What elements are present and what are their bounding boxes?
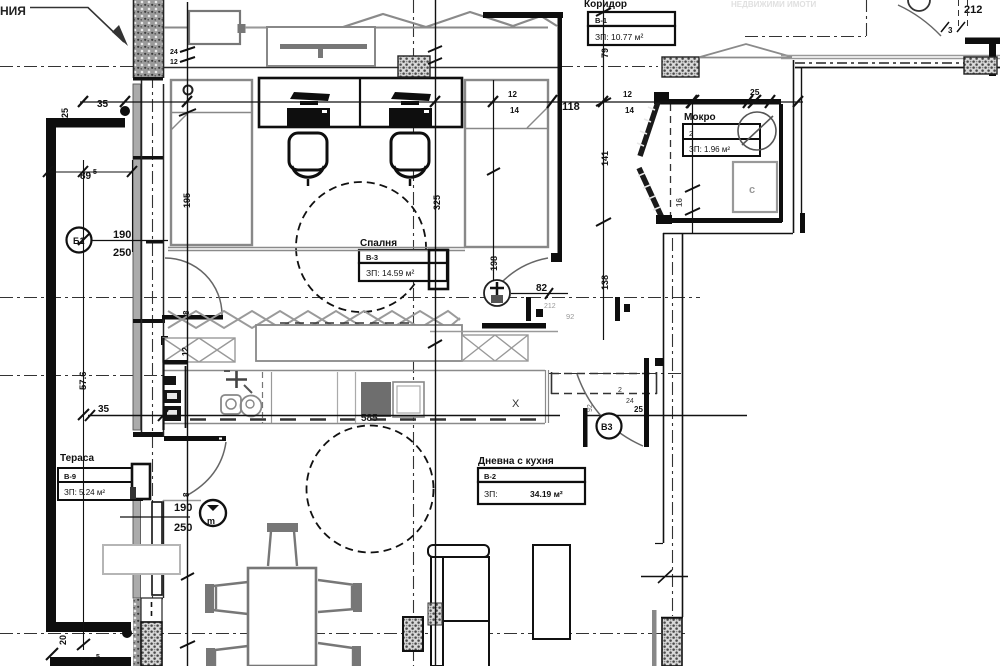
mokro corner blob xyxy=(654,92,669,104)
svg-text:ЗП:: ЗП: xyxy=(484,489,498,499)
chair 1 xyxy=(289,133,327,170)
mokro roof xyxy=(700,44,792,58)
wall cabinets X right xyxy=(462,335,528,361)
terrace parapet thick wall xyxy=(46,118,125,128)
svg-text:14: 14 xyxy=(625,106,634,115)
chair left mid xyxy=(205,584,214,613)
chair 2 xyxy=(391,133,429,170)
kitchen vertical wall edge xyxy=(162,338,164,430)
keyboard 1 xyxy=(287,108,330,126)
insulation zigzag top wall xyxy=(340,12,557,28)
kitchen insulation zigzag band xyxy=(168,311,460,328)
coffee table xyxy=(533,545,570,639)
svg-text:Мокро: Мокро xyxy=(684,112,716,123)
sofa seat 1 xyxy=(443,557,489,621)
kitchen counter xyxy=(163,370,545,372)
door posts hall xyxy=(526,297,531,321)
chair left bottom xyxy=(206,648,215,666)
wall cabinets X left xyxy=(163,338,235,362)
entrance door arc xyxy=(898,5,941,36)
vertical dim x=603 xyxy=(603,0,605,340)
column hatched bottom-left xyxy=(141,622,162,666)
axis line C horizontal y=375 xyxy=(0,374,683,376)
living top wall grey xyxy=(430,331,558,333)
bedroom top wall outer face xyxy=(164,27,380,29)
ticks and small dims on x187 xyxy=(179,47,196,648)
counter front line + dim 35 xyxy=(88,415,747,417)
svg-text:X: X xyxy=(512,398,520,410)
mokro bottom wall xyxy=(656,215,672,224)
svg-text:25: 25 xyxy=(634,405,643,414)
svg-text:12: 12 xyxy=(170,59,178,66)
entry door B3 arc xyxy=(577,374,643,446)
svg-text:НЕДВИЖИМИ ИМОТИ: НЕДВИЖИМИ ИМОТИ xyxy=(731,0,816,9)
top wall black segment xyxy=(483,12,563,18)
svg-text:В-2: В-2 xyxy=(484,472,496,481)
vertical dim line x=132 xyxy=(132,160,134,252)
axis line B horizontal y=297 xyxy=(0,297,700,299)
stove dark grey xyxy=(361,382,391,417)
entry door B3 post xyxy=(644,358,649,447)
column hatched mokro left xyxy=(662,57,699,77)
bedroom-corridor wall top xyxy=(558,17,563,62)
door frame rect hallway xyxy=(429,250,448,289)
svg-text:35: 35 xyxy=(97,99,109,110)
dim line y=240 xyxy=(92,240,168,242)
dining table xyxy=(248,568,316,666)
chair top xyxy=(267,523,298,532)
bedroom bottom wall xyxy=(168,248,465,251)
entry wall inner black xyxy=(795,67,1000,69)
bedroom top wall inner face xyxy=(163,67,560,69)
svg-text:2: 2 xyxy=(618,387,622,394)
svg-text:92: 92 xyxy=(587,404,594,412)
dim ticks on mokro top wall xyxy=(686,95,761,108)
kitchen tall appliance dark xyxy=(163,376,176,385)
svg-text:16: 16 xyxy=(675,198,684,207)
vertical dim x=493 xyxy=(493,80,495,281)
vertical line x=187 xyxy=(187,2,189,666)
dim line 89.5 y=172 xyxy=(46,171,132,173)
svg-text:В-9: В-9 xyxy=(64,472,76,481)
dim 190/250 terrace door xyxy=(120,516,190,518)
left exterior wall hatched block xyxy=(133,0,163,78)
dashed circle living xyxy=(307,426,434,553)
svg-text:25: 25 xyxy=(750,87,760,97)
svg-text:24: 24 xyxy=(170,49,178,56)
black wall bar above living xyxy=(482,323,546,329)
svg-text:12: 12 xyxy=(623,90,632,99)
dim tick right wall xyxy=(641,570,688,583)
svg-text:В-3: В-3 xyxy=(366,253,378,262)
axis vertical x=152 xyxy=(152,75,154,620)
monitor 2 xyxy=(391,92,431,101)
svg-text:138: 138 xyxy=(600,275,610,290)
svg-text:250: 250 xyxy=(174,522,192,534)
svg-text:141: 141 xyxy=(600,151,610,166)
bed 1 xyxy=(171,80,252,245)
sofa back xyxy=(428,545,489,557)
closet with rail xyxy=(267,27,375,66)
axis vertical x=672 xyxy=(672,238,674,616)
desk xyxy=(259,78,462,127)
svg-text:В-1: В-1 xyxy=(595,16,607,25)
axis bubble B3 xyxy=(597,414,622,439)
svg-text:195: 195 xyxy=(182,193,192,208)
vertical line x=435 xyxy=(435,0,437,666)
mokro right wall xyxy=(779,104,783,222)
mokro diagonal wall lower xyxy=(639,168,663,220)
mokro top wall thick xyxy=(656,99,781,105)
svg-text:25: 25 xyxy=(60,108,70,118)
sofa seat 2 xyxy=(443,621,489,666)
svg-text:325: 325 xyxy=(432,195,442,210)
svg-text:c: c xyxy=(749,184,755,196)
svg-text:57.6: 57.6 xyxy=(78,372,89,391)
axis vertical x=413 xyxy=(413,0,415,666)
terrace planter box xyxy=(132,464,150,499)
svg-text:5: 5 xyxy=(96,654,100,661)
svg-text:ЗП: 5.24 м²: ЗП: 5.24 м² xyxy=(64,488,105,497)
bedroom door left arc xyxy=(165,258,222,315)
left wall bottom hatch xyxy=(133,598,141,666)
svg-text:89: 89 xyxy=(80,171,92,182)
wardrobe top-left xyxy=(189,11,240,44)
svg-text:190: 190 xyxy=(113,229,131,241)
svg-text:250: 250 xyxy=(113,247,131,259)
terrace bench light grey xyxy=(103,545,180,574)
vertical dim x=692 xyxy=(692,104,694,233)
window mullion dividers xyxy=(133,156,163,160)
svg-text:92: 92 xyxy=(566,312,574,321)
shaft box C xyxy=(733,162,777,212)
sofa arm xyxy=(431,557,443,666)
window frame lower xyxy=(152,502,162,595)
vertical dim line x=83 xyxy=(83,160,85,650)
svg-text:ЗП: 14.59 м²: ЗП: 14.59 м² xyxy=(366,268,414,278)
mokro door chord dashed xyxy=(670,104,672,218)
svg-text:24: 24 xyxy=(626,398,634,405)
svg-text:82: 82 xyxy=(536,283,548,294)
wall cell dashes below hatch xyxy=(133,77,163,81)
svg-text:ЗП: 1.96 м²: ЗП: 1.96 м² xyxy=(689,145,730,154)
column hatched top right xyxy=(964,57,997,74)
chair right mid xyxy=(353,583,362,612)
window band upper (glazing strip) xyxy=(133,84,141,430)
svg-text:12: 12 xyxy=(508,90,517,99)
column hatched bottom right xyxy=(662,618,682,666)
svg-text:3: 3 xyxy=(948,26,953,35)
living room right wall xyxy=(664,233,683,617)
bedroom-corridor wall xyxy=(558,62,563,256)
bedroom door right arc xyxy=(500,258,548,284)
axis bubble with cross xyxy=(484,280,510,306)
socket symbol xyxy=(184,86,193,95)
svg-text:190: 190 xyxy=(174,502,192,514)
window end cap xyxy=(161,336,168,345)
appliance white box xyxy=(393,382,424,417)
svg-text:585: 585 xyxy=(361,413,378,424)
svg-text:В3: В3 xyxy=(601,422,613,432)
axis bubble B left xyxy=(67,228,92,253)
svg-text:5: 5 xyxy=(93,169,97,176)
hatch blob near sofa xyxy=(428,603,442,625)
column hatched living xyxy=(403,617,423,651)
ticks on y=102 xyxy=(78,95,803,108)
monitor 1 xyxy=(290,92,330,101)
svg-text:79: 79 xyxy=(600,48,610,58)
entry right walls vertical xyxy=(793,60,795,233)
svg-text:198: 198 xyxy=(489,256,499,271)
svg-text:212: 212 xyxy=(964,4,982,16)
top right black corner xyxy=(965,38,1000,45)
column hatched above desk xyxy=(398,56,430,77)
kitchen white box over zigzag xyxy=(256,325,462,361)
door leaf B3 xyxy=(583,408,588,447)
entry top wall grey double xyxy=(781,56,1000,59)
dim 82 xyxy=(511,293,568,295)
parapet end dot bottom xyxy=(122,628,132,638)
mokro diagonal wall upper xyxy=(640,102,658,156)
window band lower xyxy=(133,500,141,598)
leader arrow top-left xyxy=(30,8,124,43)
chair right bottom xyxy=(352,646,361,666)
sink faucet crosses xyxy=(226,371,247,388)
hall bottom wall y233 xyxy=(663,233,793,235)
svg-text:ЗП: 10.77 м²: ЗП: 10.77 м² xyxy=(595,32,643,42)
svg-text:Дневна с кухня: Дневна с кухня xyxy=(478,456,554,467)
svg-text:6.0: 6.0 xyxy=(80,656,94,666)
svg-text:14: 14 xyxy=(510,106,519,115)
axis line D horizontal y=633 xyxy=(0,633,688,635)
svg-text:35: 35 xyxy=(98,404,110,415)
svg-text:212: 212 xyxy=(544,303,556,310)
svg-text:m: m xyxy=(207,516,215,526)
symbol bubble at terrace door xyxy=(200,500,226,526)
svg-text:8: 8 xyxy=(182,310,191,315)
svg-text:Тераса: Тераса xyxy=(60,453,95,464)
parapet bottom cut bar xyxy=(50,657,131,666)
terrace door leaf xyxy=(164,436,226,441)
dashed circle bedroom xyxy=(296,182,426,312)
main dimension line y=102 xyxy=(80,101,803,103)
column cell white xyxy=(141,598,162,622)
svg-text:НИЯ: НИЯ xyxy=(0,4,26,18)
washing machine xyxy=(738,112,776,150)
sliding door dashes xyxy=(551,374,657,394)
window bracket symbol xyxy=(178,110,188,128)
svg-text:20: 20 xyxy=(58,635,68,645)
sink bowls / burners xyxy=(221,395,241,414)
counter dividers xyxy=(262,372,264,423)
terrace door arc xyxy=(186,442,226,496)
bed 2 xyxy=(465,80,548,247)
bedroom door left leaf xyxy=(162,315,223,320)
parapet end dot top xyxy=(120,106,130,116)
axis corner top-right xyxy=(745,0,867,37)
svg-text:Коридор: Коридор xyxy=(584,0,627,10)
svg-text:118: 118 xyxy=(562,101,580,113)
svg-text:8: 8 xyxy=(182,492,191,497)
svg-text:34.19 м²: 34.19 м² xyxy=(530,489,563,499)
svg-text:12: 12 xyxy=(181,347,190,356)
entry axis dash xyxy=(795,62,995,64)
keyboard 2 xyxy=(389,108,432,126)
